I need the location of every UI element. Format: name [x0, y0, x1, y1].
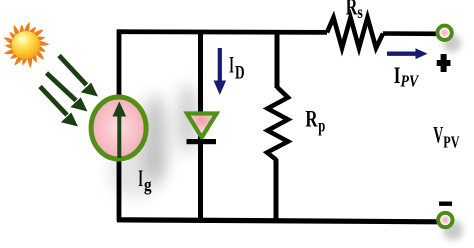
- shadow of current source I_g: [142, 95, 168, 183]
- arrow I_D: [214, 48, 227, 95]
- wire bottom: [117, 220, 437, 222]
- sun rays: [4, 22, 50, 68]
- resistor Rs: [327, 18, 383, 49]
- svg-text:IPV: IPV: [394, 63, 420, 90]
- light beam arrow 3: [40, 87, 67, 116]
- terminal - (bottom): [438, 213, 452, 227]
- minus sign: [439, 202, 452, 206]
- arrow I_PV: [387, 48, 428, 59]
- shadow below current source: [109, 146, 161, 198]
- wire top-right to terminal: [383, 31, 437, 36]
- diode D: [187, 114, 217, 145]
- wire middle vertical (diode branch): [198, 30, 203, 221]
- svg-text:Rp: Rp: [305, 107, 325, 136]
- resistor Rp: [267, 87, 288, 160]
- shadow of bottom terminal: [443, 220, 463, 240]
- terminal + (top): [437, 26, 451, 40]
- plus sign: [437, 54, 451, 72]
- shadow of top terminal: [443, 34, 461, 52]
- shadow left of diode: [179, 84, 197, 154]
- svg-text:VPV: VPV: [433, 122, 459, 151]
- light beam arrow 2: [47, 73, 77, 101]
- sun disc: [12, 31, 40, 59]
- wire left vertical: [117, 30, 122, 222]
- svg-text:Rs: Rs: [346, 0, 363, 22]
- wire top: [117, 29, 327, 35]
- svg-text:ID: ID: [229, 53, 244, 84]
- wire Rp branch bottom: [274, 159, 279, 221]
- current source Ig: [91, 97, 146, 159]
- light beam arrow 1: [40, 56, 98, 127]
- wire Rp branch top: [275, 31, 280, 88]
